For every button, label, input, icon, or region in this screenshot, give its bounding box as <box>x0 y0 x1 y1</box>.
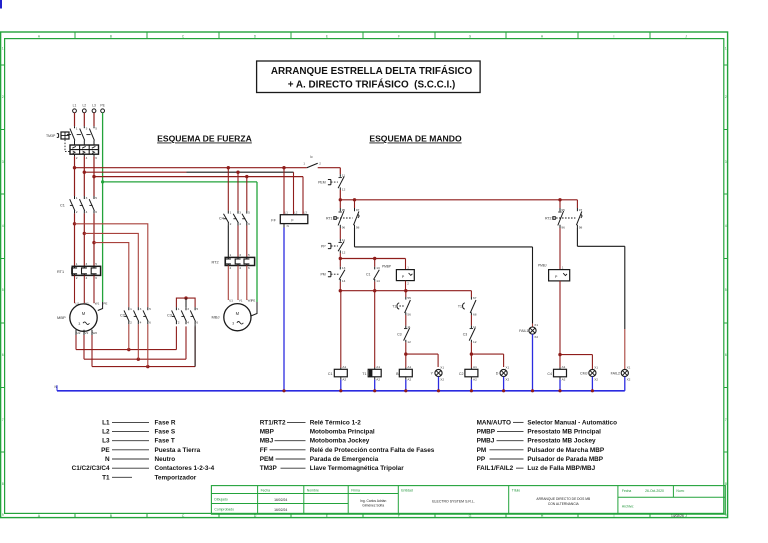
svg-text:D: D <box>496 372 499 376</box>
svg-text:Temporizador: Temporizador <box>155 474 197 481</box>
svg-text:3: 3 <box>2 160 4 164</box>
svg-text:5: 5 <box>196 307 198 311</box>
svg-text:3: 3 <box>78 322 80 326</box>
svg-text:4: 4 <box>86 210 88 214</box>
svg-text:T1: T1 <box>458 304 462 308</box>
svg-text:1: 1 <box>76 196 78 200</box>
svg-text:Motobomba Principal: Motobomba Principal <box>310 429 375 436</box>
svg-text:5: 5 <box>95 262 97 266</box>
svg-text:Presostato MB Principal: Presostato MB Principal <box>527 429 601 436</box>
svg-text:6: 6 <box>2 353 4 357</box>
svg-text:2: 2 <box>725 95 727 99</box>
svg-text:A1: A1 <box>562 365 566 369</box>
svg-text:16/02/24: 16/02/24 <box>274 498 287 502</box>
svg-text:Puesta a Tierra: Puesta a Tierra <box>155 447 201 454</box>
svg-text:C3: C3 <box>397 332 402 336</box>
svg-text:Comprobado: Comprobado <box>214 508 234 512</box>
svg-text:TM3P: TM3P <box>260 465 278 472</box>
svg-text:Presostato MB Jockey: Presostato MB Jockey <box>527 438 596 445</box>
svg-text:C1: C1 <box>366 273 371 277</box>
svg-text:5: 5 <box>95 127 97 131</box>
svg-text:Archivo:: Archivo: <box>622 505 634 509</box>
svg-text:5: 5 <box>248 253 250 257</box>
svg-text:16/02/24: 16/02/24 <box>274 508 287 512</box>
svg-text:RT1: RT1 <box>57 270 64 274</box>
svg-text:PEM: PEM <box>318 181 326 185</box>
svg-text:W2: W2 <box>93 331 98 335</box>
svg-text:11: 11 <box>407 325 410 329</box>
svg-text:6: 6 <box>95 276 97 280</box>
svg-text:FF: FF <box>260 447 268 454</box>
svg-text:96: 96 <box>342 226 346 230</box>
svg-text:RT2: RT2 <box>212 260 219 264</box>
svg-text:MBJ: MBJ <box>212 315 220 320</box>
svg-text:C1/C2/C3/C4: C1/C2/C3/C4 <box>72 465 110 472</box>
svg-text:3: 3 <box>86 262 88 266</box>
svg-text:RT1/RT2: RT1/RT2 <box>260 419 286 426</box>
svg-text:4: 4 <box>239 266 241 270</box>
svg-text:P: P <box>555 275 558 279</box>
svg-text:1: 1 <box>76 262 78 266</box>
svg-text:N: N <box>287 224 289 228</box>
svg-text:C: C <box>182 514 185 518</box>
svg-text:14: 14 <box>376 279 380 283</box>
svg-text:PE: PE <box>103 302 107 306</box>
svg-text:2: 2 <box>76 210 78 214</box>
svg-text:L3: L3 <box>304 211 308 215</box>
svg-text:1: 1 <box>2 47 4 51</box>
svg-text:PE: PE <box>251 299 255 303</box>
svg-text:A1: A1 <box>473 365 477 369</box>
svg-text:A1: A1 <box>376 365 380 369</box>
svg-text:T1: T1 <box>362 372 366 376</box>
svg-text:95: 95 <box>342 208 346 212</box>
svg-text:6: 6 <box>95 156 97 160</box>
svg-text:FAIL2: FAIL2 <box>611 372 620 376</box>
svg-text:FAIL1/FAIL2: FAIL1/FAIL2 <box>477 465 514 472</box>
svg-text:U1: U1 <box>229 299 233 303</box>
svg-text:RT1: RT1 <box>326 216 333 220</box>
svg-text:U2: U2 <box>77 331 81 335</box>
svg-text:Relé Térmico 1-2: Relé Térmico 1-2 <box>310 419 362 426</box>
svg-text:Pulsador de Parada MBP: Pulsador de Parada MBP <box>527 456 603 463</box>
svg-text:V1: V1 <box>239 299 243 303</box>
svg-text:95: 95 <box>561 208 565 212</box>
svg-text:X1: X1 <box>534 323 538 327</box>
svg-text:2: 2 <box>130 321 132 325</box>
svg-text:2: 2 <box>76 156 78 160</box>
svg-text:2: 2 <box>230 222 232 226</box>
svg-text:ARRANQUE ESTRELLA DELTA TRIFÁS: ARRANQUE ESTRELLA DELTA TRIFÁSICO <box>271 66 473 77</box>
svg-text:C3: C3 <box>463 332 468 336</box>
svg-text:1: 1 <box>130 307 132 311</box>
svg-text:X2: X2 <box>505 378 509 382</box>
svg-text:6: 6 <box>196 321 198 325</box>
svg-text:T1: T1 <box>102 474 110 481</box>
svg-text:67: 67 <box>473 296 477 300</box>
svg-text:C2: C2 <box>120 314 125 318</box>
svg-text:TM3P: TM3P <box>46 134 56 138</box>
svg-text:3: 3 <box>140 307 142 311</box>
svg-text:12: 12 <box>407 340 411 344</box>
svg-text:4: 4 <box>140 321 142 325</box>
svg-text:Fase T: Fase T <box>155 438 175 445</box>
svg-text:97: 97 <box>356 208 360 212</box>
svg-text:1: 1 <box>725 47 727 51</box>
svg-text:A1: A1 <box>407 365 411 369</box>
svg-text:M: M <box>82 311 86 316</box>
svg-text:5: 5 <box>95 196 97 200</box>
svg-text:96: 96 <box>561 226 565 230</box>
svg-text:L1: L1 <box>285 211 289 215</box>
svg-text:ESQUEMA DE MANDO: ESQUEMA DE MANDO <box>369 134 462 144</box>
svg-text:7: 7 <box>725 418 727 422</box>
svg-text:C1: C1 <box>328 372 333 376</box>
svg-text:FAIL1: FAIL1 <box>519 329 528 333</box>
svg-text:6: 6 <box>248 222 250 226</box>
svg-text:55: 55 <box>407 296 411 300</box>
svg-text:MAN/AUTO: MAN/AUTO <box>477 419 511 426</box>
svg-text:Dibujado: Dibujado <box>214 498 227 502</box>
svg-text:98: 98 <box>579 226 583 230</box>
svg-text:9: 9 <box>2 513 4 517</box>
svg-text:PMBP: PMBP <box>477 429 496 436</box>
svg-text:C4: C4 <box>547 372 552 376</box>
svg-text:4: 4 <box>2 224 4 228</box>
svg-text:A1: A1 <box>342 365 346 369</box>
svg-text:A2: A2 <box>376 378 380 382</box>
svg-text:1: 1 <box>76 127 78 131</box>
svg-text:E: E <box>326 34 328 38</box>
svg-text:MBP: MBP <box>260 429 275 436</box>
svg-text:L3: L3 <box>102 438 110 445</box>
svg-text:2: 2 <box>76 276 78 280</box>
svg-text:4: 4 <box>86 276 88 280</box>
svg-text:11: 11 <box>342 173 345 177</box>
svg-text:1: 1 <box>178 307 180 311</box>
svg-text:2: 2 <box>230 266 232 270</box>
svg-text:14: 14 <box>342 279 346 283</box>
svg-text:56: 56 <box>407 312 411 316</box>
svg-text:X1: X1 <box>627 365 631 369</box>
svg-text:X2: X2 <box>594 378 598 382</box>
svg-text:6: 6 <box>725 353 727 357</box>
svg-text:Giménez Sofía: Giménez Sofía <box>362 504 384 508</box>
svg-text:Entidad: Entidad <box>401 489 413 493</box>
svg-text:CMJ: CMJ <box>580 372 588 376</box>
svg-text:4: 4 <box>187 321 189 325</box>
svg-text:Nombre: Nombre <box>307 489 319 493</box>
svg-text:11: 11 <box>473 325 476 329</box>
svg-text:Fecha: Fecha <box>261 489 271 493</box>
svg-text:C2: C2 <box>459 372 464 376</box>
svg-text:L3: L3 <box>92 104 96 108</box>
svg-text:CON ALTERNANCIA: CON ALTERNANCIA <box>548 502 580 506</box>
svg-text:A2: A2 <box>473 378 477 382</box>
svg-text:6: 6 <box>95 210 97 214</box>
svg-text:Contactores 1-2-3-4: Contactores 1-2-3-4 <box>155 465 215 472</box>
svg-text:L2: L2 <box>102 429 110 436</box>
svg-text:PP: PP <box>477 456 486 463</box>
svg-text:C4: C4 <box>219 217 224 221</box>
svg-text:Título: Título <box>512 489 521 493</box>
svg-text:3: 3 <box>86 196 88 200</box>
svg-text:PM: PM <box>477 447 487 454</box>
svg-text:Motobomba Jockey: Motobomba Jockey <box>310 438 370 445</box>
svg-text:4: 4 <box>725 224 727 228</box>
svg-text:PMBJ: PMBJ <box>538 263 547 267</box>
svg-text:C1: C1 <box>60 204 65 208</box>
svg-text:Neutro: Neutro <box>155 456 176 463</box>
svg-text:X2: X2 <box>534 335 538 339</box>
svg-text:3: 3 <box>86 127 88 131</box>
svg-text:12: 12 <box>473 340 477 344</box>
svg-text:6: 6 <box>149 321 151 325</box>
svg-text:Fecha: Fecha <box>622 489 632 493</box>
svg-text:Pulsador de Marcha MBP: Pulsador de Marcha MBP <box>527 447 604 454</box>
svg-text:5: 5 <box>248 211 250 215</box>
svg-text:C3: C3 <box>167 314 172 318</box>
svg-text:+ A. DIRECTO TRIFÁSICO (S.C.C: + A. DIRECTO TRIFÁSICO (S.C.C.I.) <box>288 79 456 90</box>
svg-text:PP: PP <box>321 244 326 248</box>
svg-text:A2: A2 <box>342 378 346 382</box>
svg-text:X1: X1 <box>594 365 598 369</box>
svg-text:V2: V2 <box>85 331 89 335</box>
svg-text:L1: L1 <box>102 419 110 426</box>
svg-text:PE: PE <box>101 447 110 454</box>
svg-text:Parada de Emergencia: Parada de Emergencia <box>310 456 379 463</box>
svg-text:ARRANQUE DIRECTO DE DOS MB: ARRANQUE DIRECTO DE DOS MB <box>536 497 591 501</box>
svg-text:M: M <box>236 311 240 316</box>
svg-text:1: 1 <box>230 253 232 257</box>
svg-text:PMBJ: PMBJ <box>477 438 495 445</box>
svg-text:MBJ: MBJ <box>260 438 274 445</box>
svg-text:F: F <box>398 34 400 38</box>
svg-text:X1: X1 <box>505 365 509 369</box>
svg-text:98: 98 <box>356 226 360 230</box>
svg-text:L1: L1 <box>73 104 77 108</box>
svg-text:7: 7 <box>2 418 4 422</box>
svg-text:3: 3 <box>239 253 241 257</box>
svg-text:13: 13 <box>376 266 380 270</box>
svg-text:PM: PM <box>320 273 325 277</box>
svg-text:1: 1 <box>230 211 232 215</box>
svg-text:8: 8 <box>2 482 4 486</box>
svg-text:5: 5 <box>149 307 151 311</box>
svg-text:X2: X2 <box>627 378 631 382</box>
svg-text:3: 3 <box>232 321 234 325</box>
svg-text:5: 5 <box>2 288 4 292</box>
svg-text:97: 97 <box>579 208 583 212</box>
svg-text:Ing. Carlos Adrián: Ing. Carlos Adrián <box>360 499 386 503</box>
svg-text:T1: T1 <box>392 304 396 308</box>
svg-text:Num:: Num: <box>676 489 684 493</box>
svg-text:MBP: MBP <box>57 315 66 320</box>
svg-text:I: I <box>614 34 615 38</box>
svg-text:W1: W1 <box>95 302 100 306</box>
svg-text:PMBP: PMBP <box>382 264 391 268</box>
svg-text:Relé de Protección contra Falt: Relé de Protección contra Falta de Fases <box>310 447 435 454</box>
svg-text:Fase R: Fase R <box>155 419 176 426</box>
svg-text:12: 12 <box>342 187 346 191</box>
svg-text:Fase S: Fase S <box>155 429 176 436</box>
svg-text:4: 4 <box>239 222 241 226</box>
svg-text:14/02/26: 14/02/26 <box>671 514 684 518</box>
svg-text:X2: X2 <box>440 378 444 382</box>
svg-text:13: 13 <box>342 266 346 270</box>
svg-text:ELECTRO SYSTEM S.R.L.: ELECTRO SYSTEM S.R.L. <box>432 500 475 504</box>
svg-text:2: 2 <box>178 321 180 325</box>
svg-text:A2: A2 <box>562 378 566 382</box>
svg-text:4: 4 <box>86 156 88 160</box>
svg-text:PEM: PEM <box>260 456 274 463</box>
svg-text:N: N <box>105 456 110 463</box>
svg-text:Ic: Ic <box>310 155 313 159</box>
svg-text:P: P <box>402 275 405 279</box>
svg-text:26-Oct-2020: 26-Oct-2020 <box>645 489 664 493</box>
svg-text:12: 12 <box>342 250 346 254</box>
svg-text:L2: L2 <box>82 104 86 108</box>
svg-text:L2: L2 <box>294 211 298 215</box>
svg-text:6: 6 <box>248 266 250 270</box>
svg-text:68: 68 <box>473 312 477 316</box>
svg-text:3: 3 <box>239 211 241 215</box>
svg-text:Llave Termomagnética Tripolar: Llave Termomagnética Tripolar <box>310 465 405 472</box>
svg-text:FF: FF <box>271 219 276 223</box>
svg-text:A2: A2 <box>407 378 411 382</box>
svg-text:Selector Manual - Automático: Selector Manual - Automático <box>527 419 617 426</box>
svg-text:11: 11 <box>342 238 345 242</box>
svg-text:B: B <box>110 34 112 38</box>
svg-text:Luz de Falla MBP/MBJ: Luz de Falla MBP/MBJ <box>527 465 595 472</box>
svg-text:5: 5 <box>725 288 727 292</box>
svg-text:RT2: RT2 <box>545 216 552 220</box>
svg-text:ESQUEMA DE FUERZA: ESQUEMA DE FUERZA <box>157 134 252 144</box>
svg-text:3: 3 <box>187 307 189 311</box>
svg-text:2: 2 <box>2 95 4 99</box>
svg-text:X1: X1 <box>440 365 444 369</box>
svg-text:3: 3 <box>725 160 727 164</box>
svg-text:Firma: Firma <box>351 489 360 493</box>
